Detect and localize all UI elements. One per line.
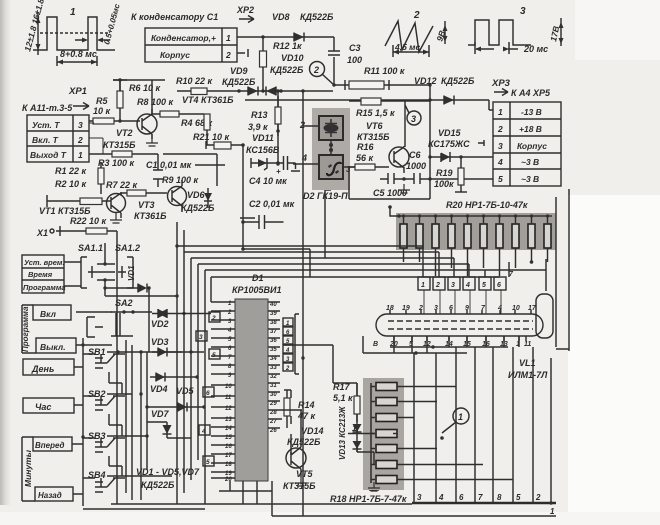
svg-text:35: 35 (270, 347, 277, 353)
svg-text:Время: Время (28, 270, 53, 279)
svg-text:6: 6 (459, 493, 464, 502)
svg-text:1000: 1000 (406, 161, 426, 171)
svg-text:29: 29 (269, 401, 277, 407)
svg-text:6: 6 (497, 282, 501, 289)
svg-text:R16: R16 (357, 142, 375, 152)
svg-text:R5: R5 (96, 96, 108, 106)
svg-text:VT2: VT2 (116, 128, 133, 138)
svg-text:1: 1 (226, 33, 231, 43)
svg-text:3: 3 (411, 114, 416, 124)
svg-text:+: + (276, 167, 281, 176)
svg-text:5: 5 (206, 459, 210, 466)
svg-text:33: 33 (270, 365, 277, 371)
svg-text:31: 31 (270, 383, 277, 389)
svg-text:2: 2 (77, 135, 83, 145)
svg-text:R21 10 к: R21 10 к (193, 132, 230, 142)
svg-text:КТ361Б: КТ361Б (134, 211, 167, 221)
svg-text:R10 22 к: R10 22 к (176, 76, 213, 86)
svg-text:2: 2 (413, 10, 420, 21)
svg-text:26: 26 (269, 428, 277, 434)
svg-text:4: 4 (438, 493, 444, 502)
svg-text:Корпус: Корпус (517, 141, 547, 151)
svg-text:С6: С6 (409, 150, 421, 160)
svg-text:КС175ЖС: КС175ЖС (428, 139, 470, 149)
svg-text:100к: 100к (434, 179, 454, 189)
svg-text:10 к: 10 к (93, 106, 111, 116)
svg-text:VT5: VT5 (296, 469, 314, 479)
svg-text:2: 2 (497, 124, 503, 134)
svg-text:R11 100 к: R11 100 к (364, 66, 405, 76)
svg-text:ХР1: ХР1 (68, 86, 87, 97)
svg-text:2: 2 (211, 315, 216, 322)
svg-text:47 к: 47 к (297, 411, 316, 421)
svg-text:3: 3 (451, 282, 455, 289)
svg-text:Конденсатор,+: Конденсатор,+ (151, 33, 216, 43)
svg-text:37: 37 (270, 329, 277, 335)
svg-text:40: 40 (269, 302, 277, 308)
svg-text:КТ315Б: КТ315Б (357, 132, 390, 142)
svg-text:VD14: VD14 (301, 426, 324, 436)
svg-text:VD3: VD3 (151, 337, 169, 347)
svg-text:28: 28 (269, 410, 277, 416)
svg-text:VD11: VD11 (252, 133, 274, 143)
svg-text:VD13 КС213Ж: VD13 КС213Ж (338, 406, 347, 460)
svg-text:R14: R14 (298, 400, 315, 410)
svg-text:Вкл: Вкл (40, 309, 57, 319)
svg-text:R13: R13 (251, 110, 268, 120)
svg-text:1: 1 (352, 424, 357, 433)
svg-text:32: 32 (270, 374, 277, 380)
svg-text:VD8: VD8 (272, 12, 290, 22)
svg-text:R12 1к: R12 1к (273, 41, 302, 51)
svg-text:1: 1 (70, 7, 76, 18)
svg-text:VD5: VD5 (176, 386, 195, 396)
svg-text:36: 36 (270, 338, 277, 344)
svg-text:Вперед: Вперед (35, 441, 65, 450)
svg-text:R19: R19 (436, 168, 453, 178)
svg-text:6: 6 (206, 390, 210, 397)
svg-text:R2 10 к: R2 10 к (55, 179, 87, 189)
svg-text:КД522Б: КД522Б (181, 203, 215, 213)
svg-text:Х1: Х1 (36, 228, 48, 238)
svg-text:8+0.8 мс: 8+0.8 мс (60, 49, 97, 59)
svg-text:20 мс: 20 мс (523, 44, 548, 54)
svg-text:ХР2: ХР2 (236, 5, 254, 15)
svg-text:VD1: VD1 (127, 265, 136, 281)
svg-text:SA1.1: SA1.1 (78, 243, 103, 253)
svg-text:11: 11 (524, 341, 531, 348)
svg-text:2: 2 (225, 50, 231, 60)
svg-text:5: 5 (498, 174, 503, 184)
svg-text:VT4 КТ361Б: VT4 КТ361Б (182, 95, 234, 105)
svg-text:2: 2 (313, 65, 319, 75)
svg-text:3: 3 (417, 493, 422, 502)
svg-text:КД522Б: КД522Б (141, 480, 175, 490)
svg-text:2: 2 (299, 120, 305, 130)
svg-text:Выкл.: Выкл. (40, 342, 66, 352)
svg-text:С3: С3 (349, 43, 361, 53)
svg-text:КД522Б: КД522Б (441, 76, 475, 86)
svg-text:34: 34 (270, 356, 277, 362)
svg-text:К А11-т.3-5: К А11-т.3-5 (22, 103, 73, 113)
svg-text:КТ315Б: КТ315Б (103, 140, 136, 150)
svg-text:4: 4 (497, 157, 503, 167)
svg-text:D1: D1 (252, 273, 264, 283)
svg-text:27: 27 (269, 419, 277, 425)
svg-text:R6 10 к: R6 10 к (129, 83, 161, 93)
svg-text:10: 10 (512, 305, 520, 312)
svg-text:VT1 КТ315Б: VT1 КТ315Б (39, 206, 91, 216)
svg-text:SB3: SB3 (88, 431, 106, 441)
svg-text:R8 100 к: R8 100 к (137, 97, 174, 107)
svg-text:VD6: VD6 (187, 190, 206, 200)
svg-text:R3 100 к: R3 100 к (98, 158, 135, 168)
svg-text:7: 7 (478, 493, 483, 502)
svg-text:КД522Б: КД522Б (222, 77, 256, 87)
svg-text:VD15: VD15 (438, 128, 462, 138)
svg-text:5: 5 (212, 352, 216, 359)
svg-text:КС156В: КС156В (246, 145, 280, 155)
svg-text:VD4: VD4 (150, 384, 168, 394)
svg-text:R9 100 к: R9 100 к (162, 175, 199, 185)
svg-text:R18 НР1-7Б-7-47к: R18 НР1-7Б-7-47к (330, 494, 407, 504)
svg-text:КР1005ВИ1: КР1005ВИ1 (232, 285, 282, 295)
svg-text:SB1: SB1 (88, 347, 106, 357)
svg-text:VT3: VT3 (138, 200, 155, 210)
svg-text:К конденсатору С1: К конденсатору С1 (131, 12, 218, 22)
svg-text:4: 4 (301, 153, 307, 163)
svg-text:Выход Т: Выход Т (30, 150, 67, 160)
svg-text:VD9: VD9 (230, 66, 248, 76)
svg-text:КД522Б: КД522Б (300, 12, 334, 22)
svg-text:Программа: Программа (23, 283, 66, 292)
svg-text:Корпус: Корпус (160, 50, 190, 60)
svg-text:D2 ГК19-П: D2 ГК19-П (303, 191, 348, 201)
svg-text:4,5 мс: 4,5 мс (394, 42, 420, 52)
svg-text:2: 2 (435, 282, 440, 289)
svg-text:-13 В: -13 В (521, 107, 542, 117)
svg-text:1: 1 (498, 107, 503, 117)
svg-text:1: 1 (458, 412, 463, 422)
svg-text:~3 В: ~3 В (521, 174, 539, 184)
svg-text:К А4 ХР5: К А4 ХР5 (511, 88, 551, 98)
svg-text:1: 1 (550, 507, 555, 516)
svg-text:Вкл. Т: Вкл. Т (32, 135, 59, 145)
svg-text:ИЛМ1-7Л: ИЛМ1-7Л (508, 370, 548, 380)
svg-text:3: 3 (498, 141, 503, 151)
svg-text:VD7: VD7 (151, 409, 170, 419)
svg-text:КД522Б: КД522Б (287, 437, 321, 447)
svg-text:R22 10 к: R22 10 к (70, 216, 107, 226)
svg-text:Уст. Т: Уст. Т (32, 120, 60, 130)
svg-text:8: 8 (497, 493, 502, 502)
svg-text:VD2: VD2 (151, 319, 169, 329)
svg-text:Уст. врем.: Уст. врем. (24, 258, 65, 267)
svg-text:~3 В: ~3 В (521, 157, 539, 167)
svg-text:1: 1 (78, 150, 83, 160)
svg-text:39: 39 (270, 311, 277, 317)
svg-text:R15 1,5 к: R15 1,5 к (356, 108, 395, 118)
svg-text:38: 38 (270, 320, 277, 326)
svg-text:56 к: 56 к (356, 153, 374, 163)
svg-text:3,9 к: 3,9 к (248, 122, 268, 132)
svg-text:Назад: Назад (38, 491, 62, 500)
svg-text:SA1.2: SA1.2 (115, 243, 140, 253)
svg-text:Минуты: Минуты (23, 449, 33, 487)
svg-text:3: 3 (199, 334, 203, 341)
svg-text:С2 0,01 мк: С2 0,01 мк (249, 199, 295, 209)
svg-text:100: 100 (347, 55, 362, 65)
svg-text:ХР3: ХР3 (491, 78, 511, 89)
svg-text:3: 3 (520, 6, 526, 17)
svg-text:4: 4 (465, 282, 470, 289)
svg-text:VD12: VD12 (414, 76, 437, 86)
svg-text:VD10: VD10 (281, 53, 304, 63)
svg-text:5: 5 (482, 282, 486, 289)
svg-text:2: 2 (535, 493, 541, 502)
svg-text:День: День (31, 364, 54, 374)
svg-text:5: 5 (516, 493, 521, 502)
svg-text:+18 В: +18 В (519, 124, 542, 134)
svg-text:5,1 к: 5,1 к (333, 393, 353, 403)
svg-text:С1 0,01 мк: С1 0,01 мк (146, 160, 192, 170)
svg-text:3: 3 (78, 120, 83, 130)
svg-text:R7 22 к: R7 22 к (106, 180, 138, 190)
svg-text:Час: Час (35, 402, 51, 412)
svg-text:1: 1 (421, 282, 425, 289)
svg-text:КД522Б: КД522Б (270, 65, 304, 75)
svg-text:VT6: VT6 (366, 121, 384, 131)
svg-text:R20 НР1-7Б-10-47к: R20 НР1-7Б-10-47к (446, 200, 528, 210)
svg-text:30: 30 (270, 392, 277, 398)
svg-text:SB2: SB2 (88, 389, 106, 399)
svg-text:С4 10 мк: С4 10 мк (249, 176, 287, 186)
svg-text:В: В (373, 341, 378, 348)
svg-text:R1 22 к: R1 22 к (55, 166, 87, 176)
